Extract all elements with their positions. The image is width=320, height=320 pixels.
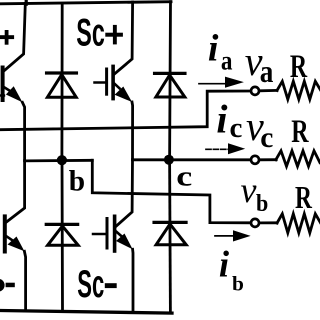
IGBT Sc- (lower middle) bbox=[93, 160, 133, 312]
wire bottom DC bus bbox=[0, 311, 172, 314]
label va bbox=[245, 38, 274, 89]
resistor R (phase c) bbox=[276, 151, 320, 167]
node b junction dot bbox=[57, 155, 67, 165]
label ia bbox=[208, 27, 233, 76]
svg-text:b: b bbox=[232, 272, 244, 296]
svg-text:a: a bbox=[260, 55, 274, 89]
arrow ic bbox=[206, 143, 245, 154]
IGBT Sc+ (upper middle) bbox=[95, 2, 133, 160]
wire va to resistor bbox=[260, 89, 277, 92]
diode Db- (lower, x=62) bbox=[46, 160, 78, 311]
svg-text:R: R bbox=[291, 115, 309, 150]
svg-text:a: a bbox=[221, 46, 233, 76]
terminal va circle bbox=[251, 87, 259, 95]
svg-text:i: i bbox=[216, 97, 227, 142]
IGBT Sb+ (upper left, gate cropped) bbox=[0, 4, 25, 161]
resistor R (phase b) bbox=[277, 214, 320, 233]
label ib bbox=[219, 244, 244, 296]
arrow ia bbox=[199, 77, 244, 88]
svg-text:i: i bbox=[219, 244, 230, 285]
label ic bbox=[216, 97, 242, 144]
wire phase-b jog to vb terminal bbox=[92, 160, 250, 223]
wire DC+ stub at top edge bbox=[25, 0, 28, 4]
svg-text:b: b bbox=[256, 189, 268, 216]
resistor R (phase a) bbox=[277, 81, 320, 99]
label vc bbox=[246, 103, 273, 154]
svg-text:Sc: Sc bbox=[77, 263, 104, 306]
svg-text:v: v bbox=[241, 170, 257, 210]
svg-text:R: R bbox=[295, 181, 313, 216]
terminal vc circle bbox=[251, 156, 259, 164]
wire top DC bus bbox=[0, 2, 171, 4]
diode Dc+ (upper, x=170) bbox=[155, 2, 185, 160]
arrow ib bbox=[215, 230, 251, 241]
wire phase-b midline bbox=[25, 159, 93, 162]
wire phase-a output (horizontal crossing, to va terminal) bbox=[0, 91, 251, 130]
svg-text:c: c bbox=[176, 160, 192, 191]
svg-text:i: i bbox=[208, 27, 219, 69]
label Sb+ (cropped, only '+' visible) bbox=[0, 30, 14, 45]
diode Db+ (upper left leg, x=62) bbox=[47, 4, 77, 160]
terminal vb circle bbox=[251, 219, 259, 227]
wire phase-c line from IGBT to vc terminal bbox=[133, 158, 251, 161]
label vb bbox=[241, 170, 269, 217]
node c junction dot bbox=[164, 155, 174, 165]
wire vc to resistor bbox=[260, 158, 276, 161]
wire vb to resistor bbox=[260, 221, 277, 224]
svg-text:c: c bbox=[230, 112, 243, 144]
label Sb- (cropped, only 'b-' edge visible) bbox=[0, 279, 15, 292]
svg-text:c: c bbox=[260, 122, 273, 154]
diode Dc- (lower, x=170) bbox=[154, 160, 186, 313]
svg-text:R: R bbox=[290, 50, 308, 85]
IGBT Sb- (lower left, gate cropped) bbox=[5, 161, 26, 311]
svg-text:b: b bbox=[69, 166, 85, 198]
svg-text:Sc: Sc bbox=[76, 12, 105, 55]
